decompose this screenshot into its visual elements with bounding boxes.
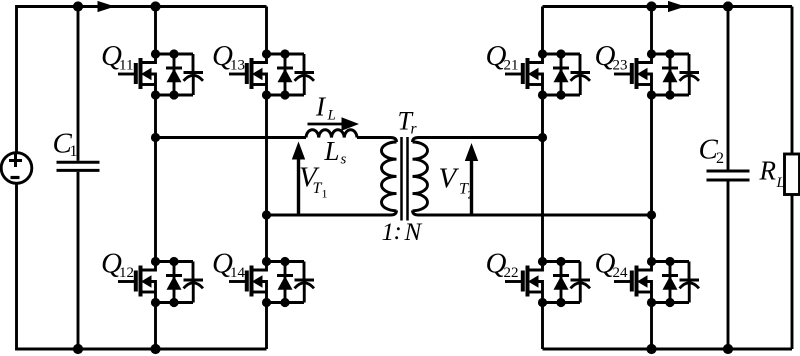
wire left leg 2 (Q13/Q14) [265, 7, 268, 350]
current arrow on left top rail [98, 1, 116, 12]
current arrow IL [308, 117, 360, 131]
voltage arrow VT1 [292, 142, 305, 215]
node C2 top [723, 1, 733, 11]
transistor Q11 [118, 49, 203, 99]
transistor Q14 [229, 257, 314, 307]
node leg2 top rail [646, 1, 656, 11]
transistor Q12 [118, 257, 203, 307]
wire secondary top (transformer to right leg1 mid) [413, 138, 543, 143]
node leg1 bottom rail [150, 344, 160, 354]
wire secondary bottom (transformer to right leg2 mid) [413, 211, 652, 216]
transistor Q23 [614, 49, 699, 99]
voltage arrow VT2 [465, 143, 478, 215]
wire right top rail [543, 5, 793, 8]
capacitor C1 [57, 7, 100, 350]
wire right bottom rail [543, 348, 793, 351]
node leg1 top rail [150, 1, 160, 11]
inductor Ls [306, 130, 357, 138]
capacitor C2 [707, 7, 750, 350]
wire primary top (leg1 mid to inductor) [156, 136, 307, 139]
transistor Q13 [229, 49, 314, 99]
wire right leg 1 (Q21/Q22) [541, 7, 544, 350]
node leg2 bottom rail [646, 344, 656, 354]
wire right leg 2 (Q23/Q24) [650, 7, 653, 350]
wire primary bottom (leg2 mid to transformer) [267, 211, 397, 216]
wire inductor to transformer primary [357, 138, 397, 143]
transformer Tr secondary winding [413, 142, 428, 211]
resistor RL [785, 7, 800, 350]
node leg1 mid [151, 133, 160, 142]
node C2 bottom [723, 344, 733, 354]
transformer Tr primary winding [382, 142, 397, 211]
transistor Q24 [614, 257, 699, 307]
node right leg1 mid [538, 133, 547, 142]
node leg2 mid [262, 210, 271, 219]
node C1 bottom [73, 344, 83, 354]
voltage source V1 [1, 153, 32, 184]
transformer core [402, 137, 408, 221]
wire left top rail + input branch top [17, 7, 267, 153]
node C1 top [73, 1, 83, 11]
wire left bottom rail + input branch bottom [17, 183, 267, 349]
current arrow on right top rail [668, 1, 686, 12]
node right leg2 mid [647, 210, 656, 219]
wire left leg 1 (Q11/Q12) [154, 7, 157, 350]
transistor Q22 [505, 257, 590, 307]
transistor Q21 [505, 49, 590, 99]
